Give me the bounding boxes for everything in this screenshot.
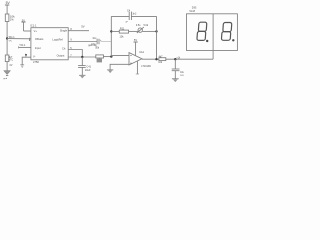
wire node A to offset pin: [7, 38, 31, 40]
op-amp V- pin to ground: [136, 61, 139, 74]
ground (V-): [20, 65, 24, 68]
junction output/Ch: [81, 56, 83, 58]
label node A: [8, 36, 15, 42]
svg-text:10u: 10u: [92, 38, 97, 40]
wire node A down to sensor: [6, 39, 8, 56]
pin 8 wire to 5V: [68, 30, 89, 32]
op-amp plus sign: [130, 63, 132, 65]
digit 1 decimal point: [206, 40, 208, 42]
wire to op-amp minus input: [111, 55, 129, 57]
wire C1 to node (faint): [101, 41, 112, 43]
wire V- pin to ground: [22, 57, 31, 64]
capacitor C4 to ground: [172, 59, 180, 79]
svg-text:gnd: gnd: [3, 78, 7, 80]
label C3 value: [127, 10, 137, 16]
label R1 value: [10, 14, 15, 21]
power 5V op-amp: [134, 42, 138, 55]
svg-text:50k: 50k: [95, 47, 100, 50]
ground (plus input): [107, 70, 113, 73]
svg-text:IC1:1: IC1:1: [30, 23, 37, 27]
resistor R3 output: [159, 58, 166, 61]
terminal tick offset wire: [29, 38, 31, 41]
wire R1 to node A: [6, 22, 8, 39]
junction feedback row 2 left: [110, 30, 112, 32]
svg-text:9: 9: [70, 38, 72, 41]
svg-text:C4: C4: [127, 10, 131, 13]
svg-text:5V: 5V: [22, 18, 25, 22]
svg-text:LT1013D: LT1013D: [141, 65, 151, 68]
op-amp minus sign: [130, 55, 132, 57]
svg-text:T/C: T/C: [8, 41, 12, 43]
trimpot VR1: [96, 55, 104, 58]
label D1 value: [136, 24, 149, 27]
wire input TJ to box: [19, 46, 31, 48]
svg-text:5V: 5V: [81, 25, 85, 29]
resistor R2 feedback: [111, 30, 138, 33]
label RT1 value: [8, 55, 13, 62]
digit 2 eight: [221, 23, 231, 41]
svg-text:Offsets: Offsets: [35, 37, 44, 41]
junction output/feedback: [155, 58, 157, 60]
ground (C4): [172, 79, 179, 82]
svg-text:10k: 10k: [158, 61, 163, 64]
svg-text:VLM: VLM: [189, 9, 195, 13]
svg-text:Output: Output: [57, 53, 65, 57]
svg-text:3n3: 3n3: [132, 14, 137, 16]
digit 2 decimal point: [232, 39, 234, 41]
pin 5 wire Ch: [68, 50, 82, 58]
pin 7 output wire: [68, 56, 96, 58]
pin 9 wire to cap C1: [68, 41, 97, 43]
label C2 value: [85, 66, 92, 72]
svg-text:V+: V+: [34, 29, 38, 33]
svg-text:Single: Single: [60, 29, 68, 33]
capacitor C2 to ground: [78, 57, 86, 75]
svg-text:1%: 1%: [10, 17, 14, 21]
svg-text:10uF: 10uF: [85, 69, 91, 72]
svg-text:LT50: LT50: [33, 60, 39, 64]
power 5V rail (V+ pin): [21, 22, 31, 31]
resistor R1: [5, 14, 9, 22]
wire R3 to display: [166, 58, 213, 60]
trimpot wiper block: [97, 59, 102, 63]
diode D1: [137, 27, 156, 33]
node A junction: [6, 37, 8, 39]
node B junction (summing): [110, 55, 112, 57]
wire sensor to ground: [6, 62, 8, 73]
svg-text:5V: 5V: [134, 38, 137, 42]
thermistor RT1: [5, 55, 9, 62]
op-amp output wire: [142, 58, 159, 60]
junction feedback row 2 right: [155, 30, 157, 32]
svg-text:0.5s: 0.5s: [136, 24, 141, 27]
digit 1 eight: [197, 22, 207, 40]
label VR1: [88, 44, 100, 50]
label C4 value: [180, 72, 185, 77]
power 5V rail top-left: [5, 5, 9, 14]
wire display to output: [212, 51, 214, 60]
label C1 value: [91, 38, 97, 46]
svg-text:TJ1:1: TJ1:1: [19, 44, 26, 47]
svg-text:0V: 0V: [10, 65, 13, 67]
svg-text:NTC: NTC: [8, 59, 13, 62]
svg-text:Ch: Ch: [62, 46, 66, 50]
svg-text:Input: Input: [35, 46, 41, 50]
ground (C2): [79, 75, 85, 78]
svg-text:5V: 5V: [6, 1, 11, 5]
svg-text:LogicRef: LogicRef: [52, 38, 63, 42]
wire plus input to ground: [110, 64, 129, 70]
svg-text:R11: R11: [120, 28, 125, 31]
svg-text:4k7: 4k7: [159, 55, 164, 58]
display divider: [212, 14, 214, 51]
polarity arrow on V- wire: [25, 54, 27, 57]
svg-text:V-: V-: [33, 55, 36, 59]
svg-text:16V: 16V: [180, 75, 184, 77]
svg-text:10k: 10k: [120, 36, 125, 39]
IC U1 box: [31, 28, 68, 60]
ground (bottom-left): [4, 71, 11, 76]
wire feedback vertical right: [156, 16, 158, 59]
capacitor C1: [97, 39, 99, 45]
op-amp U2: [129, 53, 142, 65]
svg-text:5.0k: 5.0k: [144, 24, 149, 27]
svg-text:uF: uF: [125, 21, 128, 23]
junction output/C4: [174, 58, 176, 60]
feedback capacitor C3 row: [111, 12, 156, 20]
display DPM box: [187, 14, 238, 51]
wire summing node vertical: [110, 16, 112, 56]
svg-text:U1A: U1A: [139, 51, 144, 54]
